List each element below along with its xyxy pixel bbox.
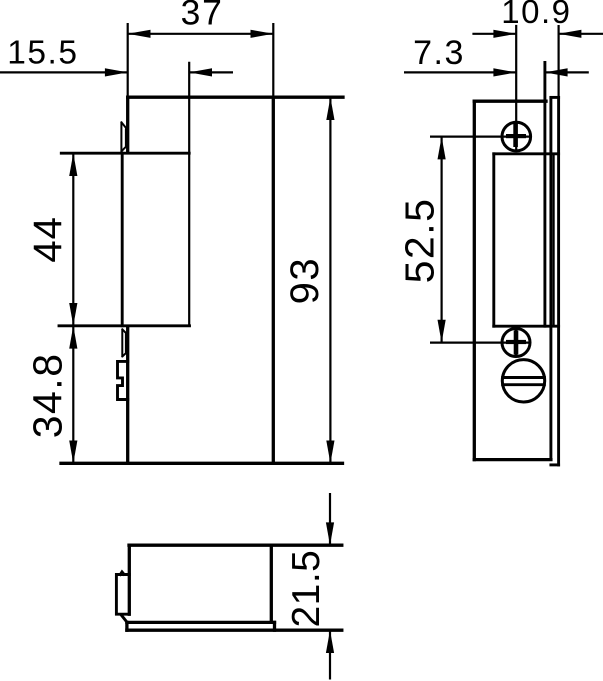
svg-text:37: 37 <box>181 0 224 32</box>
slotted screw <box>502 360 544 402</box>
dimension 21.5 <box>285 493 334 680</box>
dimension 15.5 <box>0 35 233 77</box>
left view: lower lip flap <box>122 329 127 356</box>
dimension 34.8 <box>24 326 77 464</box>
right view: side lip <box>551 25 559 465</box>
left view: strike body outline <box>61 97 343 463</box>
svg-text:7.3: 7.3 <box>413 34 465 72</box>
bottom phillips screw <box>430 329 530 357</box>
dimension 52.5 <box>397 137 446 343</box>
bottom view: body outline <box>129 545 342 622</box>
svg-text:10.9: 10.9 <box>501 0 571 30</box>
svg-text:21.5: 21.5 <box>285 550 328 628</box>
left view: keeper latch bumps <box>118 361 128 399</box>
dimension 7.3 <box>404 34 589 77</box>
bottom view: faceplate slab <box>127 622 342 630</box>
dimension 37 <box>128 0 274 97</box>
right view: faceplate outline <box>474 101 551 459</box>
dimension 44 <box>26 153 77 326</box>
svg-text:52.5: 52.5 <box>397 198 443 284</box>
svg-text:93: 93 <box>283 257 327 305</box>
dimension 93 <box>283 97 335 463</box>
svg-text:15.5: 15.5 <box>7 35 78 72</box>
svg-text:44: 44 <box>26 216 70 263</box>
right view: latch opening <box>494 63 559 327</box>
bottom view: keeper bump <box>116 572 129 623</box>
top phillips screw <box>430 25 531 151</box>
svg-text:34.8: 34.8 <box>24 352 70 438</box>
left view: top lip flap <box>121 122 127 151</box>
left view: latch pocket <box>59 62 190 326</box>
dimension 10.9 <box>472 0 603 38</box>
